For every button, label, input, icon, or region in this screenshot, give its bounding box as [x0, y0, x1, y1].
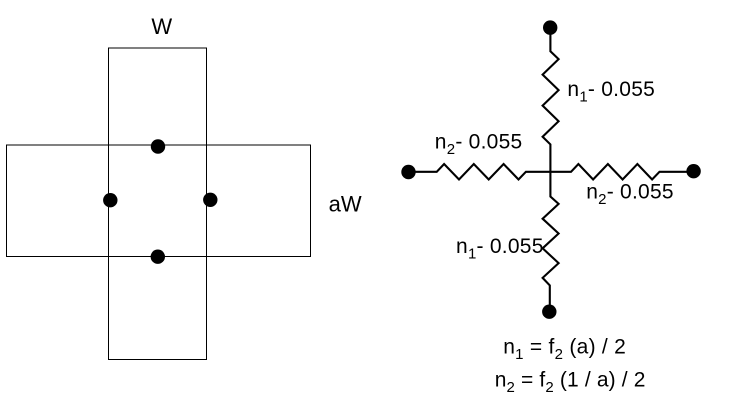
svg-text:W: W — [151, 14, 172, 39]
svg-text:aW: aW — [329, 191, 362, 216]
